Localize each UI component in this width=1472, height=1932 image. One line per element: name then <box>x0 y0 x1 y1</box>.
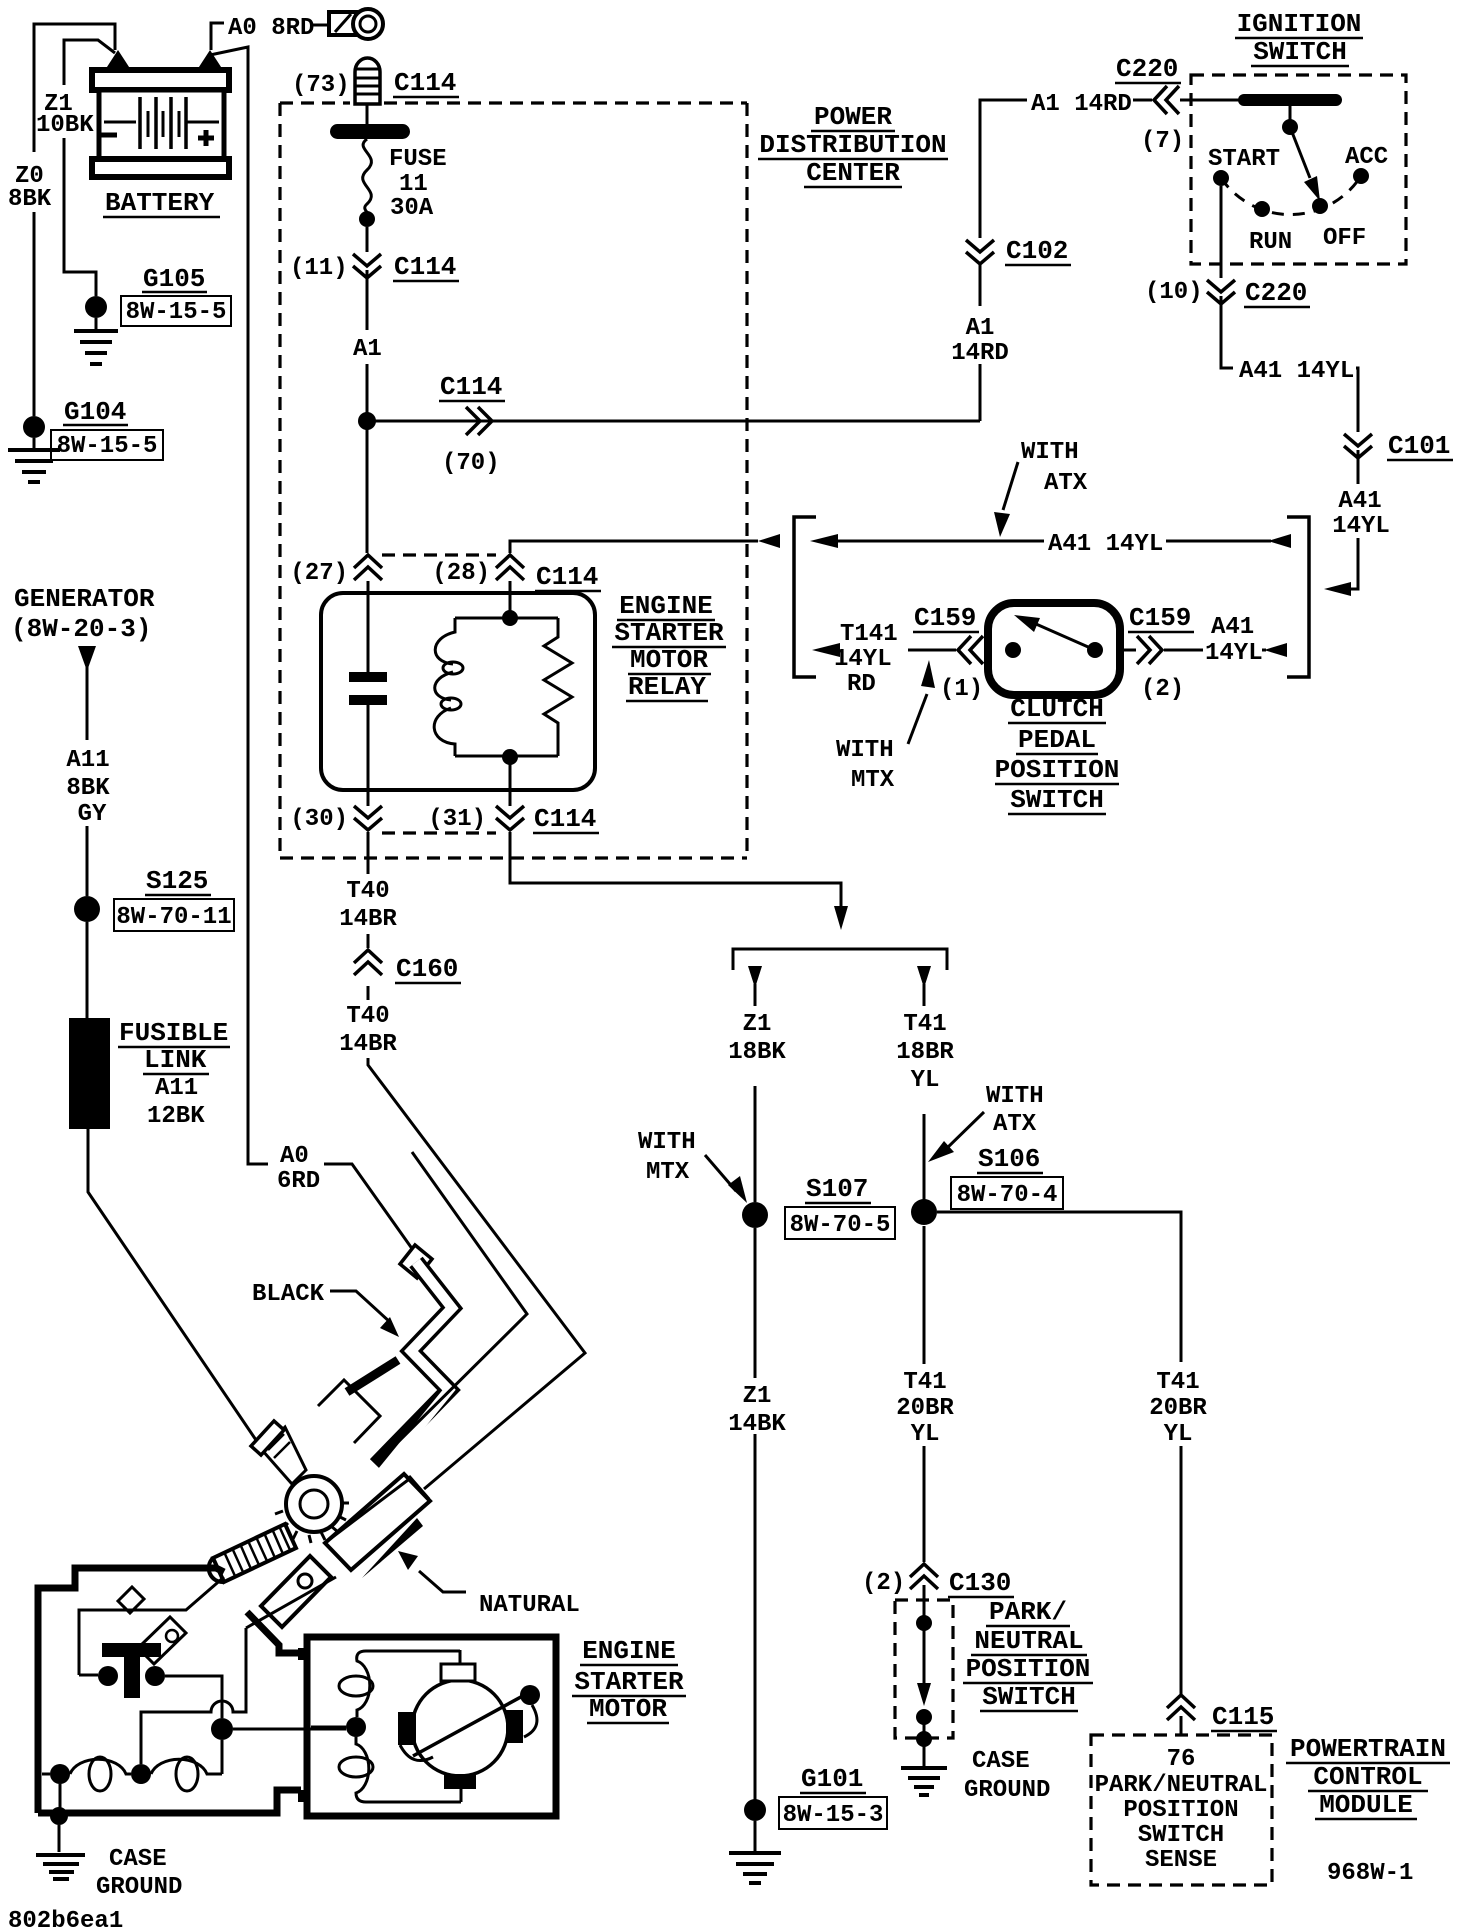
svg-text:C114: C114 <box>536 562 598 592</box>
switch wiper <box>1289 100 1292 120</box>
motor field coil <box>357 1651 460 1717</box>
svg-text:LINK: LINK <box>144 1045 207 1075</box>
fuse 11 cap <box>355 58 380 124</box>
connector C160 chevron <box>354 950 382 975</box>
svg-text:(11): (11) <box>290 255 348 282</box>
svg-text:A0 8RD: A0 8RD <box>228 15 314 42</box>
wire left contact <box>79 1674 98 1677</box>
svg-text:BATTERY: BATTERY <box>105 188 215 218</box>
connector C114 pin 11 chevron <box>353 254 381 278</box>
starter case outline <box>38 1568 301 1813</box>
wire A1 inside PDC <box>366 270 369 553</box>
svg-text:10BK: 10BK <box>36 112 94 139</box>
wire A11 12BK to starter stud <box>88 1129 258 1443</box>
small connector plates <box>118 1587 144 1613</box>
svg-text:FUSIBLE: FUSIBLE <box>119 1018 228 1048</box>
svg-text:S107: S107 <box>806 1174 868 1204</box>
svg-text:RD: RD <box>847 671 876 698</box>
wire T41 20BR YL (left) <box>923 1226 926 1562</box>
svg-text:18BK: 18BK <box>728 1039 786 1066</box>
svg-text:FUSE: FUSE <box>389 146 447 173</box>
connector C102 chevron <box>966 240 994 264</box>
wire T41 20BR YL (right branch) <box>937 1212 1181 1694</box>
svg-text:(2): (2) <box>1141 676 1184 703</box>
svg-text:CENTER: CENTER <box>806 158 900 188</box>
splice S106 <box>911 1199 937 1225</box>
svg-text:8W-15-5: 8W-15-5 <box>126 299 227 326</box>
wire right contact to junction <box>165 1676 222 1718</box>
svg-text:(8W-20-3): (8W-20-3) <box>11 614 151 644</box>
svg-text:WITH: WITH <box>1021 439 1079 466</box>
solenoid pull-in coil <box>50 1764 70 1784</box>
svg-text:C220: C220 <box>1245 278 1307 308</box>
connector C220 pin 10 chevron <box>1207 280 1235 304</box>
ring lug <box>251 1421 349 1543</box>
svg-text:C102: C102 <box>1006 236 1068 266</box>
svg-text:G101: G101 <box>801 1764 863 1794</box>
clutch pedal position switch box <box>988 603 1120 695</box>
svg-text:(1): (1) <box>940 676 983 703</box>
svg-text:8W-70-11: 8W-70-11 <box>116 904 231 931</box>
svg-text:STARTER: STARTER <box>574 1667 684 1697</box>
svg-text:RELAY: RELAY <box>628 672 706 702</box>
svg-text:8BK: 8BK <box>8 186 52 213</box>
ground G101 <box>744 1799 766 1821</box>
svg-text:8W-15-3: 8W-15-3 <box>783 1802 884 1829</box>
svg-text:14BK: 14BK <box>728 1411 786 1438</box>
svg-text:ATX: ATX <box>993 1111 1037 1138</box>
case inner outline <box>79 1577 224 1675</box>
connector C115 chevron <box>1167 1695 1195 1720</box>
svg-text:POSITION: POSITION <box>995 755 1120 785</box>
svg-text:MTX: MTX <box>851 767 895 794</box>
bracket right <box>1287 517 1309 677</box>
svg-text:968W-1: 968W-1 <box>1327 1860 1413 1887</box>
svg-text:WITH: WITH <box>836 737 894 764</box>
fusible link <box>69 1018 110 1129</box>
svg-text:CASE: CASE <box>109 1846 167 1873</box>
bus bar <box>330 124 410 139</box>
wire T40 below relay <box>368 832 585 1489</box>
svg-text:C159: C159 <box>1129 603 1191 633</box>
svg-text:A41: A41 <box>1211 614 1254 641</box>
junction dot <box>359 211 375 227</box>
starter feed harness outline <box>394 1152 527 1446</box>
svg-text:BLACK: BLACK <box>252 1281 325 1308</box>
battery cable BLACK (outline band) <box>376 1245 452 1472</box>
power distribution center dashed box <box>280 103 747 858</box>
svg-text:GY: GY <box>78 801 107 828</box>
junction node <box>211 1718 233 1740</box>
svg-text:A11: A11 <box>66 747 109 774</box>
svg-text:A11: A11 <box>155 1075 198 1102</box>
distribution bracket <box>733 949 947 970</box>
svg-text:IGNITION: IGNITION <box>1237 9 1362 39</box>
svg-text:8W-70-4: 8W-70-4 <box>957 1182 1058 1209</box>
svg-text:G105: G105 <box>143 264 205 294</box>
wire A41 14YL from C220 <box>1221 296 1233 368</box>
powertrain control module dashed box <box>1091 1735 1272 1885</box>
relay resistor <box>544 618 572 756</box>
switch position contacts <box>1213 170 1229 186</box>
svg-text:PARK/: PARK/ <box>989 1597 1067 1627</box>
svg-text:Z1: Z1 <box>743 1011 772 1038</box>
svg-text:GROUND: GROUND <box>964 1777 1050 1804</box>
svg-text:ENGINE: ENGINE <box>619 591 713 621</box>
connector C114 pin 30 chevron <box>354 806 382 830</box>
svg-text:18BR: 18BR <box>896 1039 954 1066</box>
svg-text:ENGINE: ENGINE <box>582 1636 676 1666</box>
svg-text:14RD: 14RD <box>951 340 1009 367</box>
svg-text:8BK: 8BK <box>66 775 110 802</box>
svg-text:CLUTCH: CLUTCH <box>1010 694 1104 724</box>
connector C101 chevron <box>1344 434 1372 458</box>
svg-text:T41: T41 <box>903 1369 946 1396</box>
wire T41 18BR YL <box>917 966 931 988</box>
svg-text:PARK/NEUTRAL: PARK/NEUTRAL <box>1095 1772 1268 1799</box>
svg-text:C220: C220 <box>1116 54 1178 84</box>
svg-text:NEUTRAL: NEUTRAL <box>974 1626 1083 1656</box>
ignition switch contact bar <box>1238 94 1342 106</box>
svg-text:ACC: ACC <box>1345 144 1388 171</box>
svg-text:A41 14YL: A41 14YL <box>1239 358 1354 385</box>
connector C114 pin 27 chevron <box>354 555 382 580</box>
svg-text:A1: A1 <box>966 315 995 342</box>
svg-text:12BK: 12BK <box>147 1103 205 1130</box>
svg-text:C114: C114 <box>534 804 596 834</box>
splice S107 <box>742 1202 768 1228</box>
svg-text:6RD: 6RD <box>277 1168 320 1195</box>
svg-text:PEDAL: PEDAL <box>1018 725 1096 755</box>
ring terminal eyelet <box>329 9 383 39</box>
svg-text:14BR: 14BR <box>339 1031 397 1058</box>
svg-text:(2): (2) <box>862 1570 905 1597</box>
svg-text:MODULE: MODULE <box>1319 1790 1413 1820</box>
svg-text:GENERATOR: GENERATOR <box>14 584 155 614</box>
svg-text:8W-70-5: 8W-70-5 <box>790 1212 891 1239</box>
motor armature <box>412 1680 508 1776</box>
relay internal rails <box>455 618 558 756</box>
svg-text:T41: T41 <box>903 1011 946 1038</box>
svg-text:T40: T40 <box>346 1003 389 1030</box>
commutator bar <box>413 1692 530 1756</box>
connector C114 pin 31 chevron <box>496 806 524 830</box>
wire from START down <box>1220 186 1223 278</box>
junction node A1 <box>358 412 376 430</box>
wire A1 14RD vertical <box>980 100 1027 421</box>
engine starter motor box <box>307 1637 556 1816</box>
svg-text:A1: A1 <box>353 336 382 363</box>
svg-text:S106: S106 <box>978 1144 1040 1174</box>
svg-text:C101: C101 <box>1388 431 1450 461</box>
splice S125 <box>74 896 100 922</box>
svg-text:11: 11 <box>399 171 428 198</box>
svg-text:C160: C160 <box>396 954 458 984</box>
starter stud screw <box>209 1524 296 1582</box>
svg-text:CASE: CASE <box>972 1748 1030 1775</box>
svg-text:RUN: RUN <box>1249 229 1292 256</box>
svg-text:MOTOR: MOTOR <box>630 645 708 675</box>
svg-text:20BR: 20BR <box>1149 1395 1207 1422</box>
connector C159 pin 2 chevron <box>1137 636 1162 664</box>
svg-text:C115: C115 <box>1212 1702 1274 1732</box>
svg-text:C114: C114 <box>394 252 456 282</box>
connector C130 chevron <box>910 1564 938 1589</box>
wire from connector down with hop <box>141 1628 246 1764</box>
svg-text:POSITION: POSITION <box>1123 1797 1238 1824</box>
wire Z1 14BK down to G101 <box>754 1228 757 1800</box>
svg-text:START: START <box>1208 146 1280 173</box>
svg-text:T141: T141 <box>840 621 898 648</box>
connector C159 pin 1 chevron <box>958 636 983 664</box>
svg-text:14YL: 14YL <box>1332 513 1390 540</box>
relay dashed boundary <box>382 555 496 833</box>
wire from (31) down to S bracket <box>510 832 841 908</box>
svg-text:SWITCH: SWITCH <box>1138 1822 1224 1849</box>
svg-text:76: 76 <box>1167 1746 1196 1773</box>
svg-text:SENSE: SENSE <box>1145 1847 1217 1874</box>
svg-text:YL: YL <box>1164 1421 1193 1448</box>
svg-text:14BR: 14BR <box>339 906 397 933</box>
ground G105 <box>74 264 231 364</box>
battery <box>92 50 229 177</box>
svg-text:OFF: OFF <box>1323 225 1366 252</box>
NATURAL connector body <box>325 1474 430 1578</box>
wire Z1 18BK <box>748 966 762 988</box>
svg-text:SWITCH: SWITCH <box>1010 785 1104 815</box>
wire A0 8RD to ring terminal <box>211 23 224 50</box>
thick crimp stub <box>347 1360 398 1392</box>
svg-text:30A: 30A <box>390 195 434 222</box>
svg-text:T41: T41 <box>1156 1369 1199 1396</box>
case ground connection <box>59 1784 62 1812</box>
svg-text:802b6ea1: 802b6ea1 <box>8 1908 123 1932</box>
svg-text:(27): (27) <box>290 560 348 587</box>
svg-text:(10): (10) <box>1145 279 1203 306</box>
svg-text:YL: YL <box>911 1067 940 1094</box>
svg-text:(73): (73) <box>292 72 350 99</box>
svg-text:A41: A41 <box>1338 488 1381 515</box>
ground G104 <box>8 397 163 482</box>
wire A41 14YL bus (with ATX) <box>810 534 838 548</box>
svg-text:WITH: WITH <box>638 1129 696 1156</box>
solenoid T contact <box>102 1643 161 1657</box>
bracket left <box>794 517 816 677</box>
svg-text:A0: A0 <box>280 1143 309 1170</box>
ignition switch dashed box <box>1191 75 1406 264</box>
svg-text:G104: G104 <box>64 397 126 427</box>
connector C114 pin 70 chevron <box>466 407 492 435</box>
svg-text:SWITCH: SWITCH <box>1253 37 1347 67</box>
svg-text:14YL: 14YL <box>1205 640 1263 667</box>
inner hook outline <box>318 1380 380 1443</box>
svg-text:NATURAL: NATURAL <box>479 1592 580 1619</box>
connector C114 pin 28 chevron <box>496 555 524 580</box>
wire A11 8BK GY from generator <box>78 646 96 671</box>
svg-text:Z1: Z1 <box>743 1383 772 1410</box>
svg-text:C114: C114 <box>440 372 502 402</box>
wire A0 (battery pos down long vertical) <box>210 47 268 1164</box>
svg-text:20BR: 20BR <box>896 1395 954 1422</box>
svg-text:T40: T40 <box>346 878 389 905</box>
svg-text:POWERTRAIN: POWERTRAIN <box>1290 1734 1446 1764</box>
svg-text:WITH: WITH <box>986 1083 1044 1110</box>
svg-text:STARTER: STARTER <box>614 618 724 648</box>
svg-text:GROUND: GROUND <box>96 1874 182 1901</box>
svg-text:MTX: MTX <box>646 1159 690 1186</box>
fuse element squiggle <box>363 139 372 217</box>
svg-text:(7): (7) <box>1141 128 1184 155</box>
svg-text:YL: YL <box>911 1421 940 1448</box>
svg-text:14YL: 14YL <box>834 646 892 673</box>
svg-text:C159: C159 <box>914 603 976 633</box>
svg-text:C114: C114 <box>394 68 456 98</box>
wire from (28) up to bracket arrow <box>510 541 758 553</box>
park/neutral position switch dashed box <box>895 1600 953 1738</box>
svg-text:DISTRIBUTION: DISTRIBUTION <box>759 130 946 160</box>
wire Z1 (battery neg to G105) <box>64 40 115 296</box>
svg-text:A41 14YL: A41 14YL <box>1048 531 1163 558</box>
svg-text:(28): (28) <box>432 560 490 587</box>
svg-text:POSITION: POSITION <box>966 1654 1091 1684</box>
wire T141 row <box>812 643 840 657</box>
svg-text:A1 14RD: A1 14RD <box>1031 91 1132 118</box>
wire (70) horizontal <box>367 420 980 423</box>
engine starter motor relay box <box>321 593 595 790</box>
svg-text:CONTROL: CONTROL <box>1313 1762 1422 1792</box>
capacitor in relay <box>367 581 370 672</box>
terminal square with hole <box>261 1556 331 1627</box>
wire to motor <box>233 1728 346 1731</box>
connector C220 pin 7 chevron <box>1154 86 1179 114</box>
svg-text:(70): (70) <box>442 450 500 477</box>
svg-text:POWER: POWER <box>814 102 892 132</box>
svg-text:(31): (31) <box>428 806 486 833</box>
svg-text:SWITCH: SWITCH <box>982 1682 1076 1712</box>
svg-text:S125: S125 <box>146 866 208 896</box>
svg-text:8W-15-5: 8W-15-5 <box>57 433 158 460</box>
svg-text:C130: C130 <box>949 1568 1011 1598</box>
wire Z0 (battery neg to G104) <box>34 24 115 416</box>
wire A0 6RD to battery cable <box>324 1164 413 1250</box>
svg-text:MOTOR: MOTOR <box>589 1694 667 1724</box>
svg-text:ATX: ATX <box>1044 470 1088 497</box>
svg-text:(30): (30) <box>290 806 348 833</box>
relay coil <box>434 618 455 756</box>
